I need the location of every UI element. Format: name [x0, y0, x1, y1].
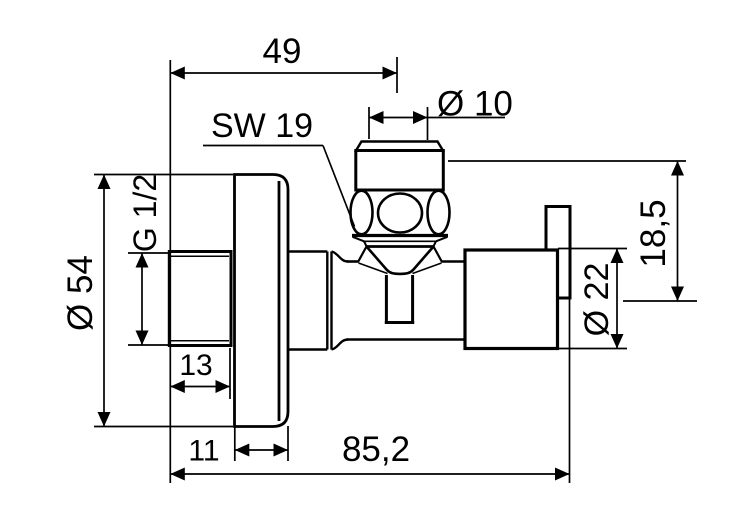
dimension 85,2 right extension line: [569, 298, 571, 483]
dimension 49 axis extension line: [396, 57, 398, 93]
valve body bottom edge: [347, 338, 465, 341]
funnel inner wall left line: [359, 263, 388, 274]
wall mounting face extension line: [169, 60, 171, 483]
funnel inner wall right line: [413, 263, 442, 274]
wall rosette outline: [235, 175, 289, 427]
dimension 85,2 line with arrows: [170, 468, 569, 481]
svg-text:Ø 22: Ø 22: [578, 263, 616, 337]
dimension 49 line: [170, 67, 397, 80]
collar band left chamfer: [353, 237, 367, 247]
hex nut SW19 right facet: [428, 191, 450, 235]
handle knob Ø22 outline: [465, 250, 558, 349]
svg-text:85,2: 85,2: [342, 430, 410, 469]
svg-text:49: 49: [263, 32, 302, 71]
label SW 19 leader line: [203, 146, 355, 227]
svg-text:18,5: 18,5: [634, 199, 673, 267]
dimension 13 line with arrows: [170, 380, 230, 393]
collar band upper line: [363, 240, 435, 242]
svg-text:G 1/2: G 1/2: [127, 174, 163, 252]
threaded inlet G1/2 outline: [169, 252, 231, 346]
dimension 13 extension line: [229, 348, 231, 399]
dimension 11 line with arrows: [235, 444, 288, 457]
inlet neck top edge: [288, 250, 327, 253]
wall rosette inner edge line: [278, 181, 281, 421]
valve stem left edge: [385, 275, 388, 324]
dimension Ø10 extension lines: [369, 107, 428, 140]
svg-text:13: 13: [179, 349, 212, 382]
inlet neck bottom edge: [288, 348, 327, 351]
dimension 18,5 line with arrows: [671, 161, 684, 301]
valve body top edge: [347, 260, 465, 263]
collar band right chamfer: [433, 237, 447, 247]
funnel left lip edge: [358, 247, 367, 263]
handle lever outline: [546, 207, 570, 299]
threaded inlet thread root lines: [171, 256, 229, 341]
svg-text:Ø 10: Ø 10: [437, 85, 513, 124]
outlet cap body: [356, 151, 444, 191]
valve stem right edge: [411, 275, 414, 324]
dimension G 1/2 line with arrows: [136, 253, 149, 345]
inlet neck shoulder double lines: [327, 252, 331, 350]
svg-text:SW 19: SW 19: [211, 107, 313, 145]
hex nut SW19 bottom edge: [352, 234, 448, 237]
svg-text:Ø 54: Ø 54: [61, 255, 100, 331]
funnel outer bowl curve: [367, 247, 434, 274]
dimension Ø22 line with arrows: [611, 249, 624, 349]
outlet cap chamfer band: [356, 142, 443, 151]
dimension Ø54 extension lines: [94, 175, 233, 427]
hex nut SW19 center facet: [378, 194, 422, 233]
funnel right lip edge: [434, 247, 443, 263]
valve stem bottom edge: [385, 321, 414, 324]
hex nut SW19 left facet: [351, 191, 373, 235]
dimension Ø54 line with arrows: [98, 175, 111, 427]
dimension Ø22 extension lines: [558, 249, 627, 349]
dimension Ø10 line with arrows: [369, 111, 505, 124]
collar band lower rim line: [367, 245, 434, 248]
dimension G 1/2 extension lines: [128, 253, 169, 345]
svg-text:11: 11: [188, 435, 219, 468]
dimension 18,5 extension lines: [448, 161, 697, 301]
inlet neck fillet curves: [332, 252, 349, 350]
dimension 11 extension lines: [235, 426, 288, 461]
